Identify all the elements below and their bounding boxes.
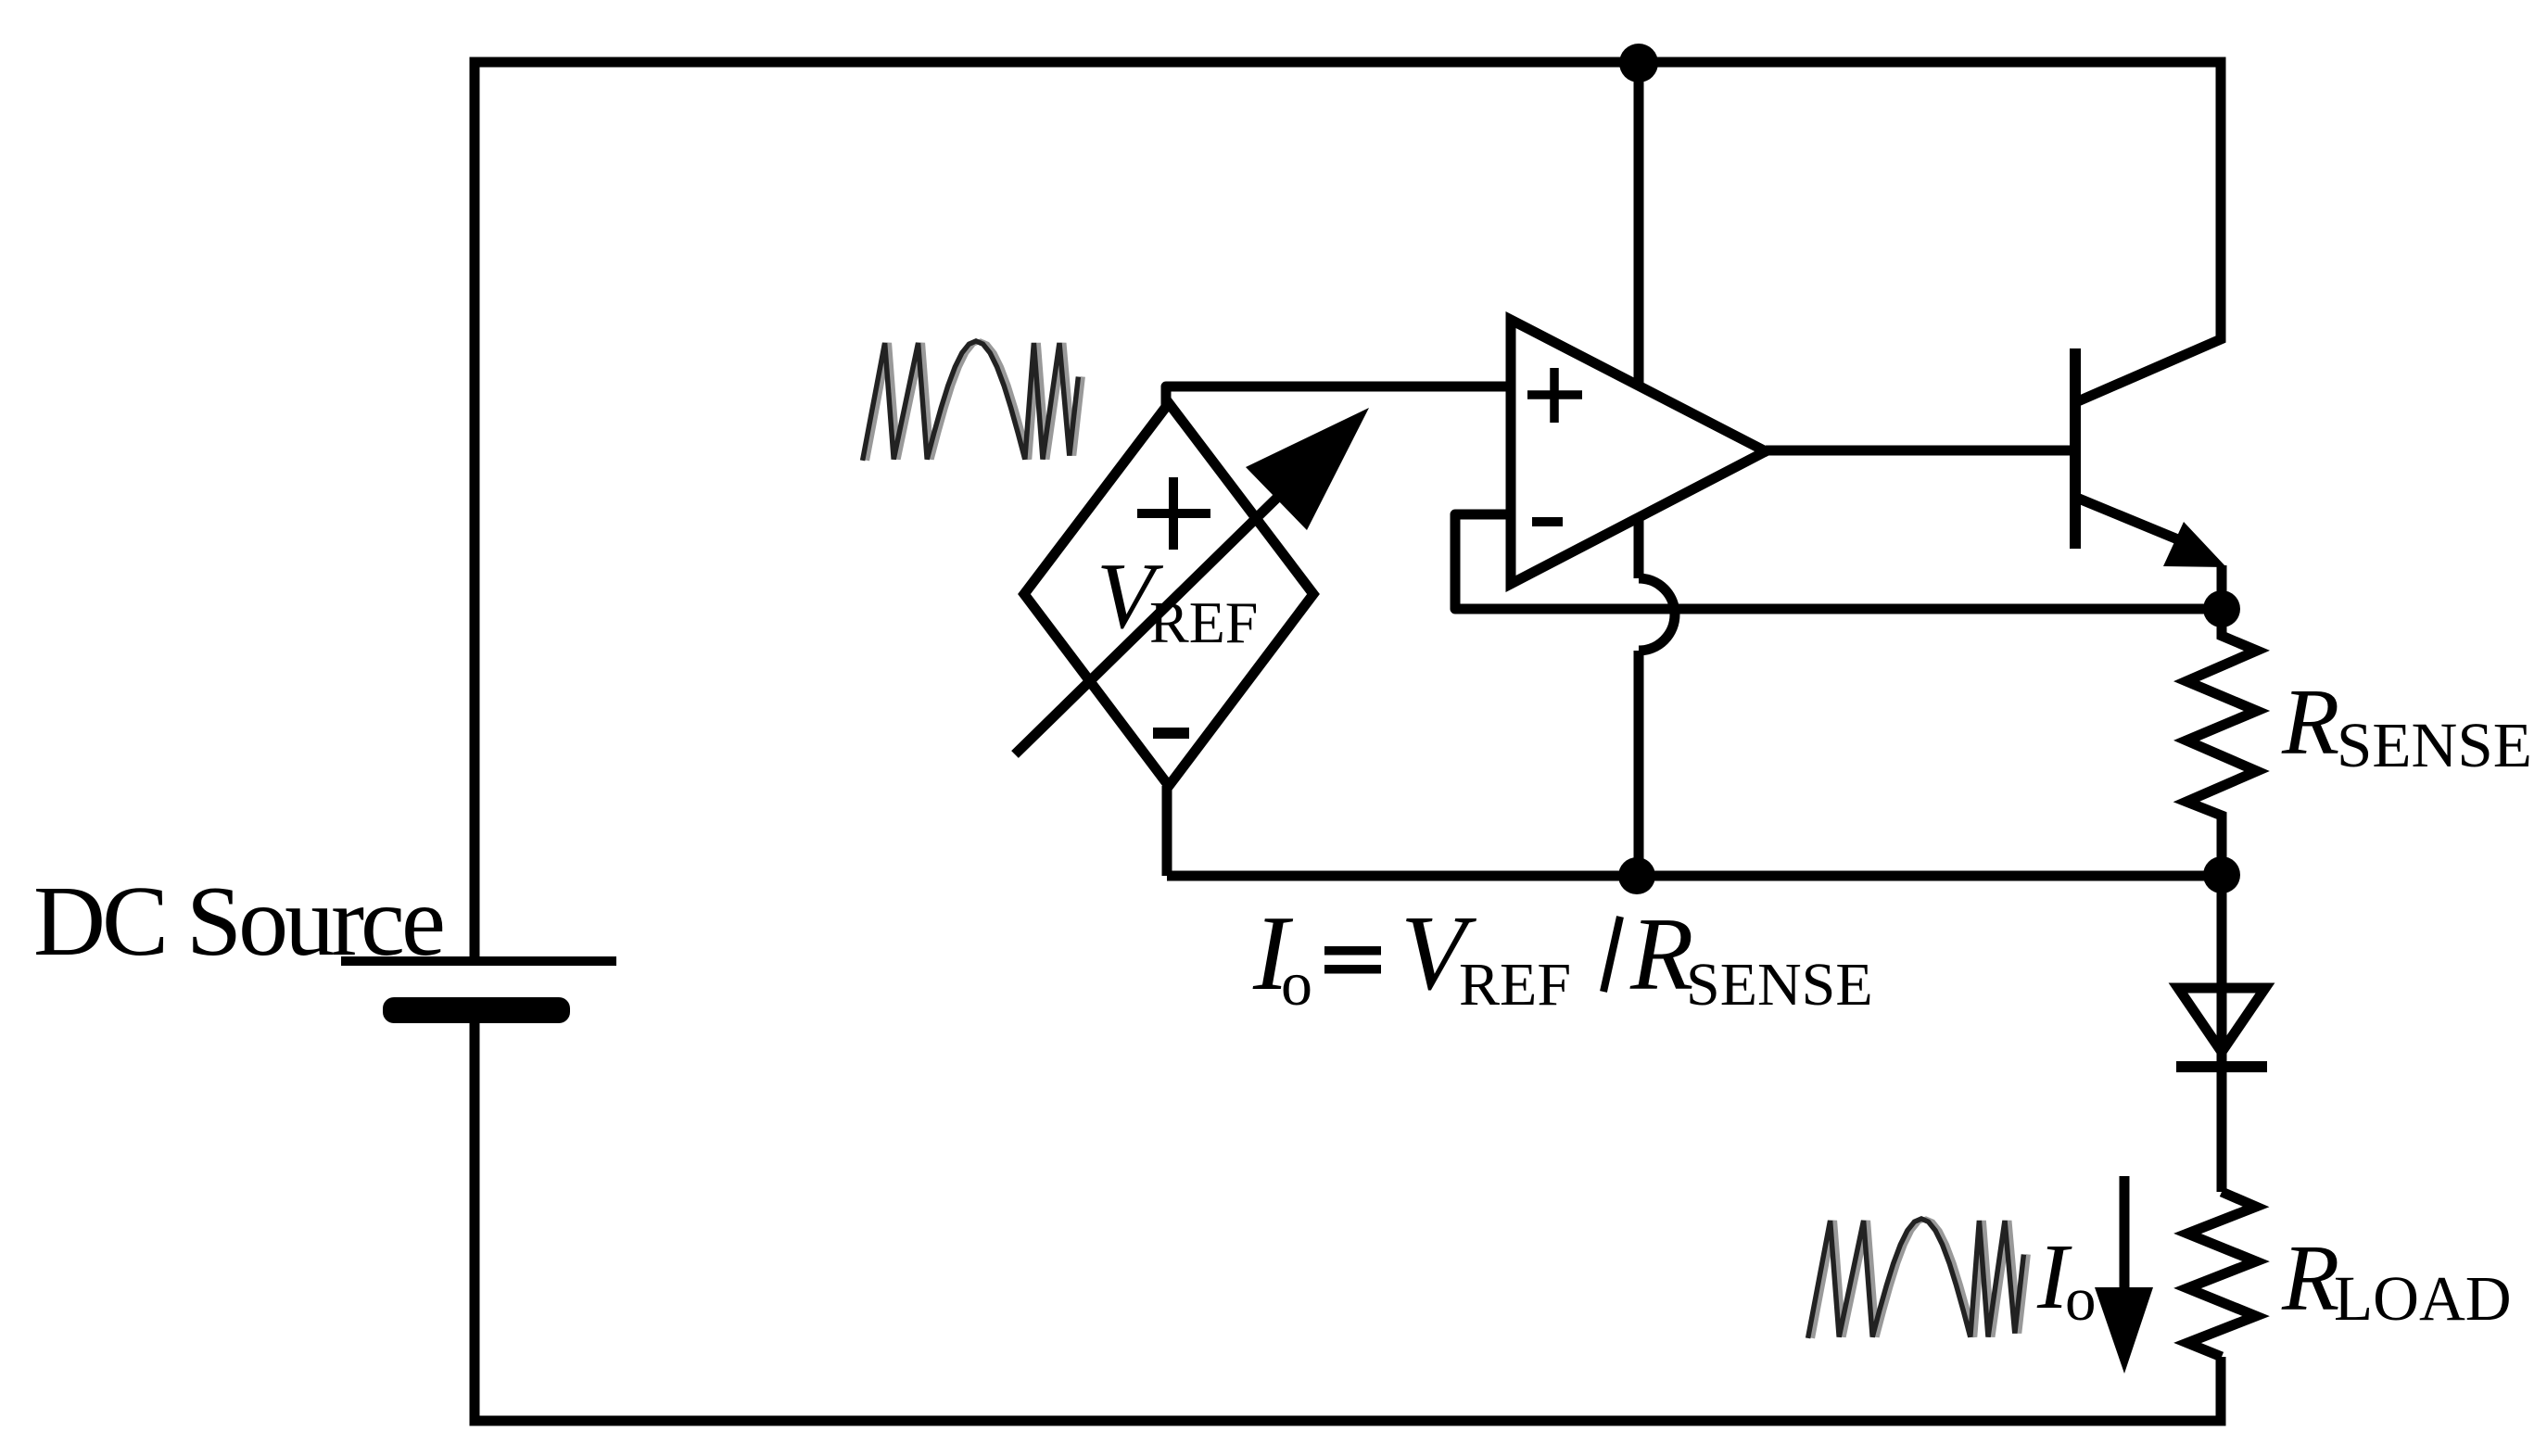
svg-text:REF: REF [1149, 589, 1258, 655]
wire main loop: battery to bottom rail to RLOAD [475, 1023, 2221, 1421]
transistor Q1 base bar [2070, 348, 2081, 549]
svg-text:SENSE: SENSE [1686, 951, 1873, 1019]
battery B1 top plate [341, 956, 616, 966]
wire hop over feedback [1639, 578, 1675, 651]
node sense bottom junction [2203, 856, 2240, 893]
svg-text:R: R [2281, 1226, 2339, 1331]
wire op-amp inverting input feedback [1455, 514, 2222, 609]
svg-text:LOAD: LOAD [2334, 1263, 2512, 1334]
source VREF body [1024, 403, 1313, 786]
wire op-amp output to base [1766, 446, 2071, 456]
op-amp U1 minus input marker [1532, 517, 1563, 526]
wire V+ vertical lower (hop down to bottom mid rail) [1634, 651, 1644, 876]
arrow Io output current [2095, 1176, 2153, 1374]
diode D1 [2178, 988, 2265, 1052]
wire V+ vertical upper (top junction down to hop) [1634, 63, 1644, 578]
node mid rail junction [1618, 857, 1655, 894]
svg-text:R: R [1629, 897, 1693, 1012]
wire VREF bottom stub [1162, 786, 1172, 876]
op-amp U1 plus input marker [1527, 368, 1582, 423]
wire op-amp noninverting input from VREF [1166, 386, 1511, 408]
source VREF variable arrow [1015, 493, 1282, 754]
wire sense junction to diode [2217, 875, 2227, 1066]
svg-text:R: R [2281, 670, 2339, 775]
source VREF plus marker [1137, 477, 1210, 550]
wire diode to RLOAD [2217, 1067, 2227, 1192]
waveform squiggle lower [1808, 1219, 2029, 1338]
node emitter junction [2203, 590, 2240, 627]
battery B1 bottom plate [383, 997, 570, 1023]
node top junction [1619, 44, 1658, 82]
svg-text:REF: REF [1459, 951, 1571, 1019]
waveform squiggle upper [863, 341, 1083, 461]
wire main loop: left riser, top rail, right drop to collector [475, 62, 2221, 956]
wire bottom mid rail (VREF minus to sense junction) [1167, 871, 2222, 881]
svg-text:o: o [2065, 1265, 2097, 1334]
op-amp U1 body [1511, 320, 1766, 584]
svg-text:SENSE: SENSE [2337, 710, 2532, 780]
transistor Q1 emitter [2079, 499, 2180, 540]
resistor RLOAD [2187, 1192, 2256, 1357]
resistor RSENSE [2186, 609, 2257, 875]
svg-text:o: o [1281, 948, 1312, 1019]
svg-text:DC Source: DC Source [33, 867, 443, 977]
source VREF minus marker [1153, 728, 1189, 739]
